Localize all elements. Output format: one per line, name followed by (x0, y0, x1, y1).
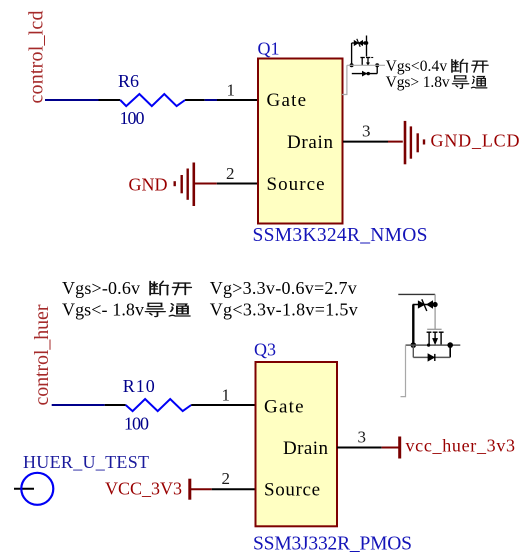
svg-text:control_lcd: control_lcd (26, 11, 48, 104)
svg-text:vcc_huer_3v3: vcc_huer_3v3 (406, 436, 516, 456)
pin 1 of Q1 (217, 81, 258, 101)
svg-text:Source: Source (267, 174, 325, 195)
pin 3 of Q3 (337, 428, 382, 448)
svg-text:Vg>3.3v-0.6v=2.7v: Vg>3.3v-0.6v=2.7v (210, 278, 357, 298)
svg-text:1: 1 (222, 386, 231, 405)
svg-text:100: 100 (124, 414, 149, 434)
node control_huer net label (31, 304, 53, 405)
svg-text:R6: R6 (118, 71, 139, 91)
svg-text:Drain: Drain (283, 438, 329, 459)
node control_lcd net label (26, 11, 48, 104)
resistor R10 (105, 376, 210, 434)
annotation text Vgs> 1.8v 导通 (386, 74, 487, 91)
svg-text:Gate: Gate (267, 90, 307, 111)
svg-text:R10: R10 (123, 376, 155, 396)
svg-text:VCC_3V3: VCC_3V3 (105, 479, 182, 499)
wire control_lcd to R6 (45, 99, 99, 101)
ground GND (left) (129, 163, 217, 207)
power VCC_3V3 (105, 479, 212, 500)
svg-text:1: 1 (227, 81, 236, 100)
pin 1 of Q3 (210, 386, 256, 406)
svg-text:Drain: Drain (287, 132, 334, 153)
annotation PMOS icon (bottom right) (398, 294, 460, 361)
svg-text:2: 2 (226, 164, 235, 183)
svg-text:SSM3J332R_PMOS: SSM3J332R_PMOS (253, 534, 412, 555)
annotation text Vgs<- 1.8v导通 Vg<3.3v-1.8v=1.5v (62, 300, 358, 320)
annotation text Vgs<0.4v 断开 (386, 58, 488, 75)
svg-text:Vgs<- 1.8v: Vgs<- 1.8v (62, 300, 144, 320)
transistor Q3 body (256, 362, 338, 526)
svg-text:GND_LCD: GND_LCD (431, 131, 520, 151)
svg-text:Vgs> 1.8v: Vgs> 1.8v (386, 74, 450, 91)
svg-text:Q1: Q1 (258, 39, 280, 59)
resistor R6 (99, 71, 205, 128)
svg-text:3: 3 (358, 428, 367, 447)
wire R6 to Q1 pin1 (205, 99, 217, 101)
svg-text:Vgs<0.4v: Vgs<0.4v (386, 58, 448, 75)
svg-text:100: 100 (120, 108, 145, 128)
svg-text:HUER_U_TEST: HUER_U_TEST (23, 452, 149, 472)
annotation NMOS icon (top right) (350, 36, 380, 76)
annotation text Vgs>-0.6v 断开 Vg>3.3v-0.6v=2.7v (62, 278, 357, 298)
svg-text:Vg<3.3v-1.8v=1.5v: Vg<3.3v-1.8v=1.5v (210, 300, 358, 320)
test point circle (14, 473, 53, 505)
wire gray leader from NMOS icon to Q1 (342, 65, 385, 94)
svg-text:Q3: Q3 (254, 340, 276, 360)
wire control_huer to R10 (52, 404, 105, 406)
pin 2 of Q3 (212, 469, 256, 489)
transistor Q1 body (258, 59, 343, 224)
svg-text:2: 2 (222, 469, 231, 488)
svg-text:Vgs>-0.6v: Vgs>-0.6v (62, 278, 140, 298)
svg-text:GND: GND (129, 175, 168, 195)
pin 3 of Q1 (343, 122, 388, 142)
svg-text:Source: Source (264, 480, 320, 501)
power vcc_huer_3v3 (382, 436, 515, 459)
wire gray leader from PMOS icon (401, 345, 406, 397)
svg-text:control_huer: control_huer (31, 304, 53, 405)
svg-text:3: 3 (362, 122, 371, 141)
ground GND_LCD (388, 121, 520, 164)
svg-text:SSM3K324R_NMOS: SSM3K324R_NMOS (253, 225, 428, 246)
svg-text:Gate: Gate (264, 397, 304, 418)
pin 2 of Q1 (217, 164, 258, 184)
